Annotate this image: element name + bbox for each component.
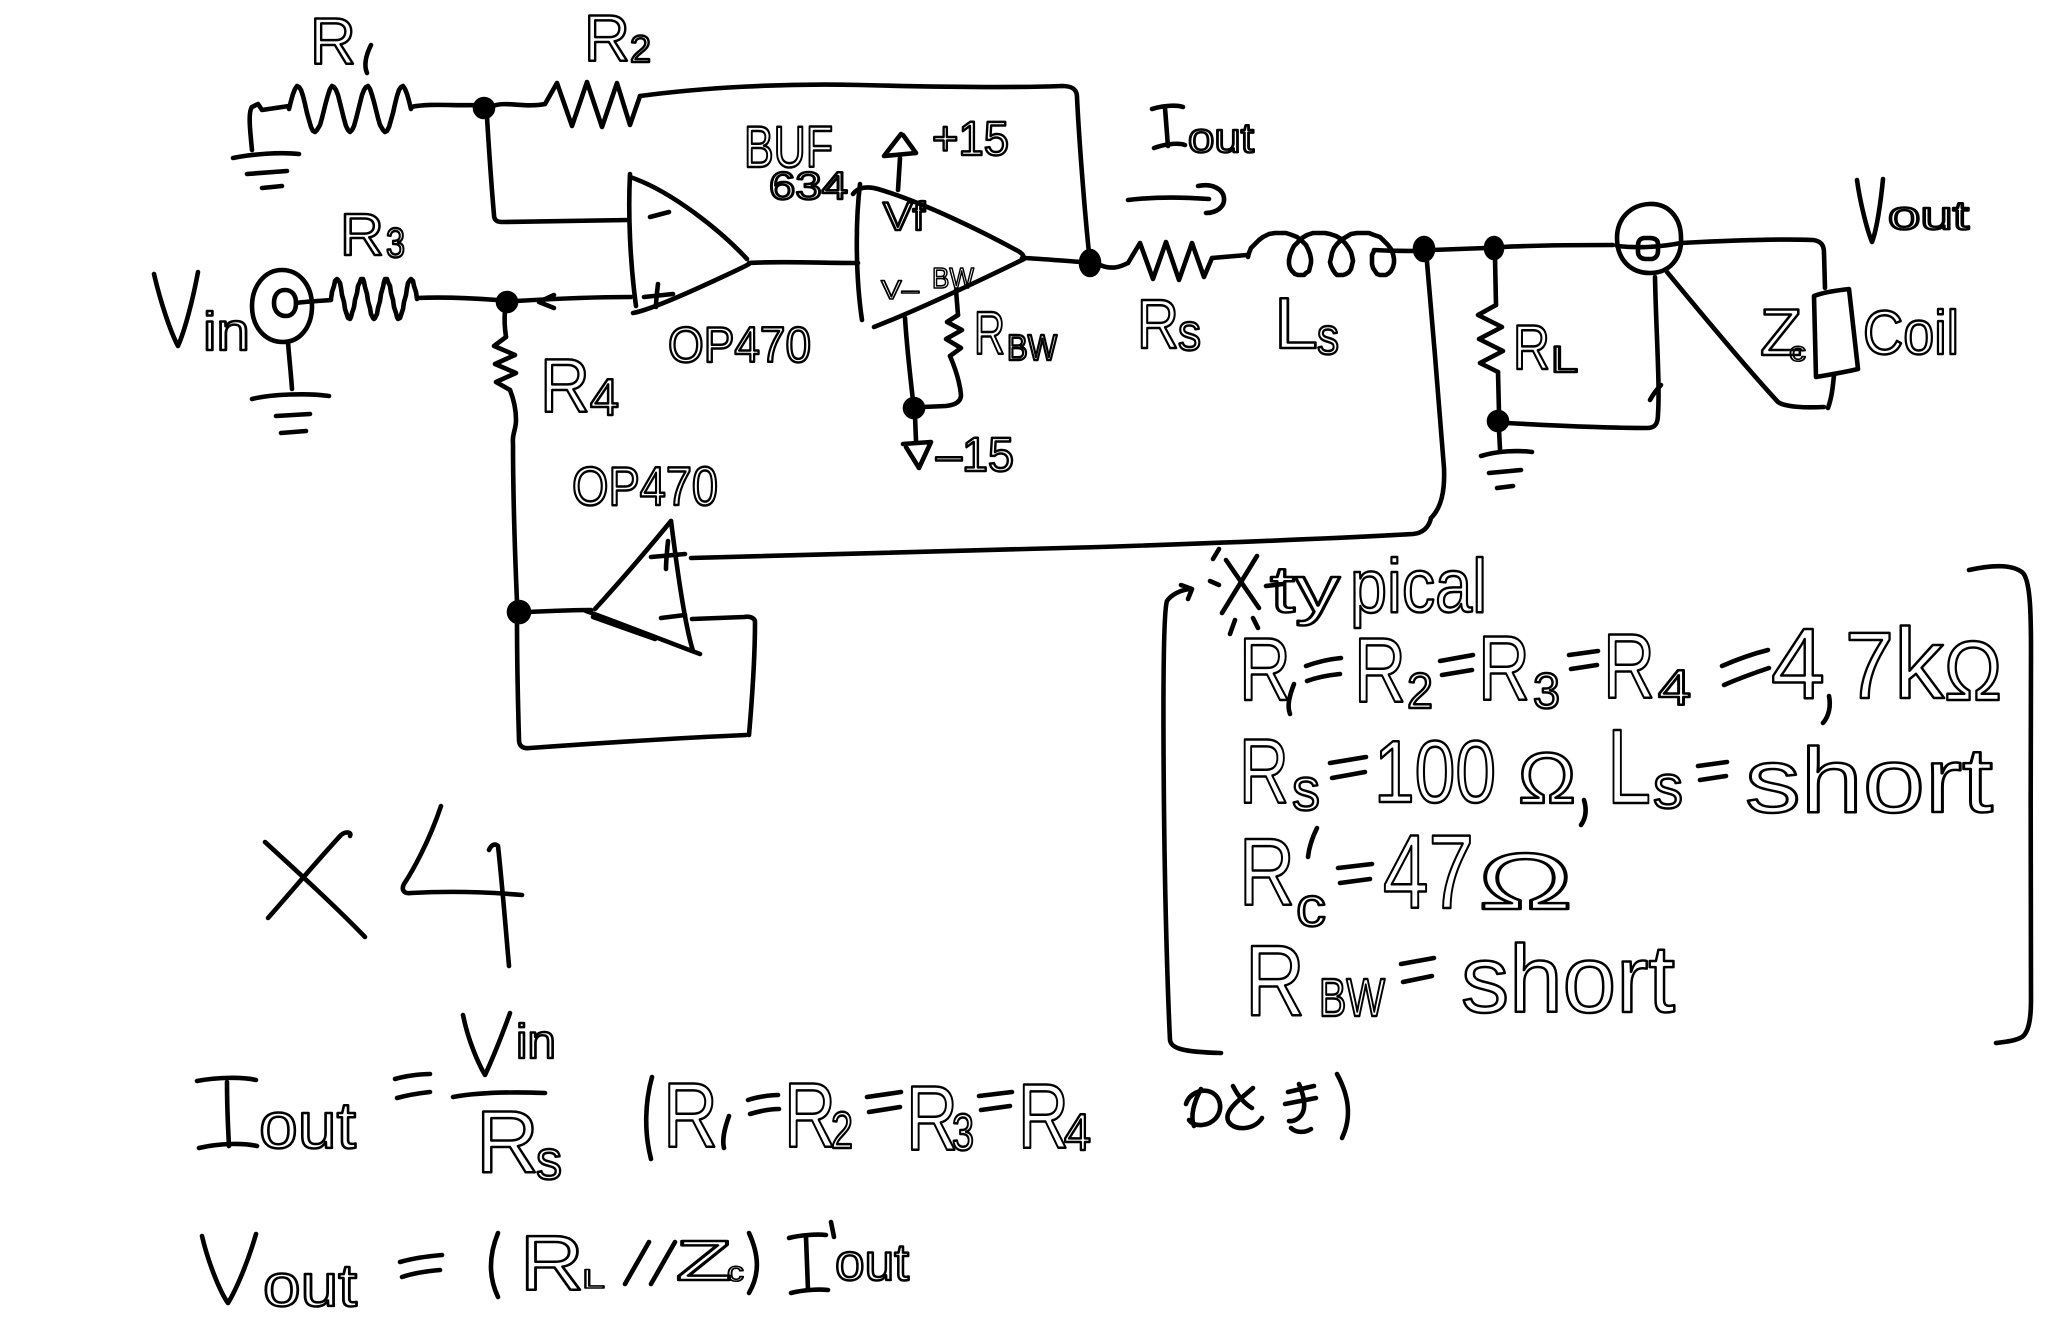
svg-text:short: short (1461, 926, 1675, 1033)
note line 3: RL&apos;=47 Ohm (1239, 814, 1573, 938)
svg-text:R: R (1018, 1066, 1069, 1168)
svg-text:3: 3 (952, 1104, 974, 1162)
svg-text:R: R (1137, 285, 1179, 363)
wire (feedback loop below U3: node F down, right, up to minus input) (517, 617, 755, 748)
wire (node A down to U1 minus input) (487, 117, 629, 222)
svg-text:ty: ty (1270, 552, 1340, 626)
buffer U2 BUF634 (853, 184, 1024, 327)
svg-text:47: 47 (1383, 814, 1474, 931)
svg-text:R: R (1478, 618, 1530, 720)
svg-text:R: R (540, 344, 590, 429)
node C (V-/RBW junction) (905, 399, 923, 417)
svg-text:in: in (203, 302, 250, 362)
svg-text:c: c (727, 1256, 744, 1287)
svg-text:s: s (1292, 756, 1320, 823)
svg-text:2: 2 (630, 29, 651, 71)
formula Vout = (RL // Zc) Iout (202, 1219, 910, 1319)
svg-text:R: R (784, 1065, 836, 1167)
svg-text:4: 4 (590, 369, 619, 427)
svg-text:BW: BW (1007, 327, 1057, 368)
svg-text:4: 4 (1658, 660, 1691, 716)
svg-text:R: R (340, 202, 384, 268)
svg-text:BW: BW (932, 263, 975, 295)
svg-text:out: out (1188, 114, 1254, 161)
wire (U3 plus input long wire to feedback column) (691, 518, 1431, 558)
label Vin (154, 272, 198, 346)
wire (Ls to node N1) (1374, 250, 1416, 251)
op-amp U3 OP470 (pointing left) (586, 521, 700, 654)
wire (connector to Vout corner and down to coil box) (1681, 240, 1825, 288)
resistor R3 (331, 279, 497, 319)
svg-text:pical: pical (1350, 544, 1487, 629)
wire (U1 output to BUF input) (749, 260, 858, 265)
svg-text:Ω: Ω (1478, 837, 1573, 926)
svg-text:L: L (1607, 708, 1651, 826)
power -15 (arrow down) (903, 416, 931, 468)
connector jack (coax) (1617, 204, 1681, 273)
svg-text:4: 4 (1064, 1104, 1091, 1162)
svg-text:4: 4 (1771, 608, 1825, 720)
svg-text:k: k (1894, 608, 1945, 720)
svg-text:R: R (663, 1065, 718, 1167)
note marker (kome mark) (1210, 549, 1283, 634)
svg-text:L: L (1551, 339, 1578, 380)
label Iout (1152, 106, 1185, 148)
svg-text:out: out (259, 1088, 356, 1162)
ground (below RL) (1481, 430, 1532, 488)
svg-text:s: s (1317, 308, 1339, 366)
resistor R4 (494, 311, 517, 602)
wire (node E right and up to connector shield) (1507, 277, 1659, 428)
svg-text:3: 3 (1533, 663, 1560, 719)
source symbol Vin (252, 270, 331, 342)
bracket right (notes) (1969, 566, 2031, 1043)
svg-text:3: 3 (386, 219, 405, 266)
svg-text:out: out (835, 1234, 910, 1292)
svg-text:R: R (1354, 620, 1406, 722)
resistor R2 (493, 82, 1062, 127)
svg-text:c: c (1789, 336, 1806, 367)
wire (V- pin down to node C) (905, 318, 913, 401)
svg-text:in: in (516, 1016, 556, 1069)
arrow (Iout direction) (1128, 185, 1224, 213)
svg-text:R: R (906, 1068, 958, 1170)
svg-text:out: out (1888, 194, 1969, 238)
wire (connector shield diagonal to coil box bottom) (1667, 272, 1834, 408)
svg-text:100: 100 (1374, 722, 1496, 821)
svg-text:short: short (1745, 730, 1993, 832)
svg-text:R: R (1603, 616, 1655, 718)
svg-text:R: R (1239, 721, 1289, 823)
svg-text:R: R (1239, 619, 1291, 719)
op-amp U1 OP470 (629, 174, 749, 313)
resistor RBW (923, 290, 962, 407)
ground (left of R1) (233, 107, 299, 188)
wire (feedback: N1 down) (1427, 262, 1444, 517)
svg-text:s: s (536, 1128, 562, 1191)
node D (BUF output node) (1081, 251, 1099, 275)
svg-text:OP470: OP470 (668, 317, 811, 373)
note line 2: Rs=100 Ohm, Ls=short (1239, 708, 1993, 832)
node N1 (1415, 238, 1433, 260)
resistor RL (1478, 258, 1503, 413)
inductor Ls (1248, 233, 1394, 275)
node E (RL bottom) (1489, 412, 1507, 430)
svg-text:R: R (1513, 313, 1550, 383)
svg-text:Coil: Coil (1863, 299, 1959, 368)
power +15 (arrow up) (884, 134, 916, 190)
annotation x4 (265, 806, 522, 966)
resistor Rs (1100, 242, 1247, 280)
svg-text:Z: Z (676, 1229, 732, 1293)
svg-text:Vf: Vf (883, 195, 926, 239)
node B (R3/R4/U1+ junction) (498, 293, 516, 311)
svg-text:+15: +15 (932, 113, 1009, 166)
svg-text:R: R (1239, 819, 1295, 926)
svg-text:–15: –15 (936, 429, 1014, 482)
wire (node B to U1 plus input, with small tick) (516, 297, 631, 301)
svg-text:Ω: Ω (1944, 624, 2002, 718)
note line 4: RBW=short (1245, 925, 1675, 1037)
wire (BUF output to node D) (1024, 258, 1082, 262)
svg-text:s: s (1178, 304, 1201, 362)
svg-text:R: R (520, 1219, 584, 1307)
svg-text:634: 634 (769, 165, 848, 208)
bracket left (notes) (1163, 585, 1221, 1053)
wire (N1 to N2) (1432, 248, 1486, 250)
svg-text:R: R (974, 300, 1005, 367)
svg-text:R: R (584, 1, 630, 75)
wire (N2 to connector) (1503, 245, 1613, 247)
svg-text:L: L (582, 1264, 605, 1294)
wire (R2 feedback: top corner down to BUF output node) (1062, 86, 1089, 253)
resistor R1 (252, 86, 478, 132)
svg-text:R: R (310, 4, 356, 78)
svg-text:2: 2 (1407, 663, 1433, 719)
label Vout (1857, 179, 1883, 242)
svg-text:OP470: OP470 (572, 455, 718, 517)
node A (R1/R2 junction) (475, 99, 493, 117)
note line 1: R1=R2=R3=R4=4.7kOhm (1239, 608, 2002, 723)
svg-text:L: L (1274, 284, 1318, 364)
svg-text:7: 7 (1845, 613, 1894, 719)
svg-text:Ω: Ω (1518, 739, 1576, 819)
svg-text:s: s (1653, 753, 1683, 822)
svg-text:out: out (263, 1252, 357, 1319)
coil box Zc (1814, 289, 1858, 377)
node N2 (1486, 238, 1502, 258)
svg-text:BW: BW (1319, 968, 1385, 1028)
svg-text:R: R (1245, 925, 1305, 1037)
ground (below Vin source) (252, 342, 329, 433)
svg-text:2: 2 (831, 1102, 853, 1160)
svg-text:V–: V– (881, 275, 919, 305)
formula Iout = Vin/Rs (R1=R2=R3=R4 no toki) (197, 1013, 1348, 1191)
wire (node F to U3 output) (528, 610, 591, 612)
svg-text:R: R (476, 1092, 539, 1191)
node F (U3 output / R4 junction) (509, 602, 529, 622)
